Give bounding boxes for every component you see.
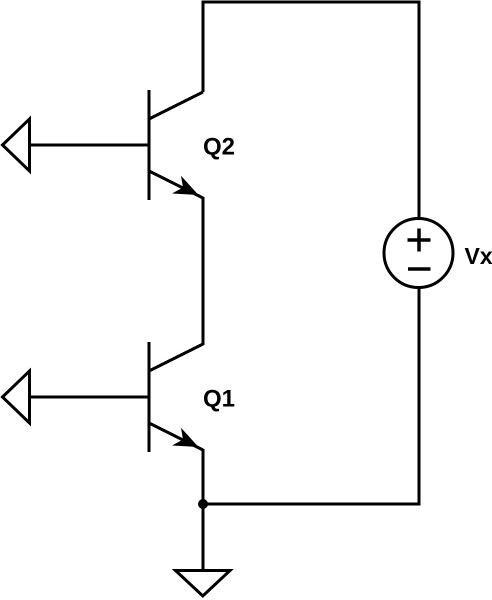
svg-text:Vx: Vx (465, 243, 492, 269)
svg-text:Q2: Q2 (203, 134, 235, 161)
svg-text:Q1: Q1 (203, 386, 235, 413)
